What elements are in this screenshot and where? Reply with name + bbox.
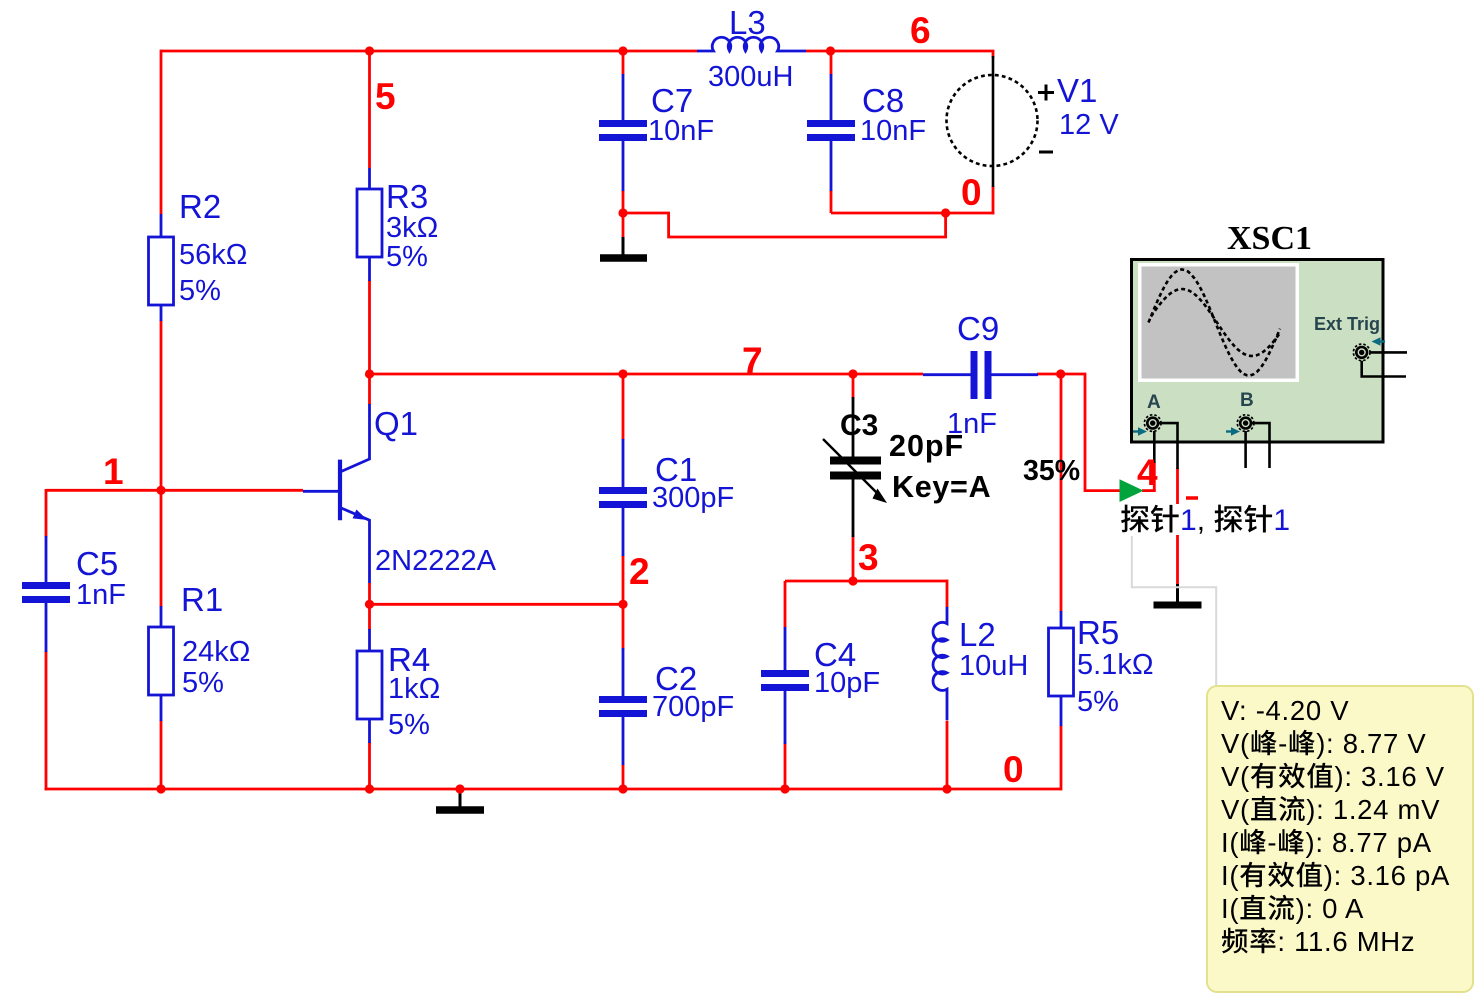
node 6 junction bbox=[826, 46, 835, 55]
readout line I rms bbox=[1221, 860, 1450, 891]
svg-text:R2: R2 bbox=[179, 188, 221, 225]
svg-text:I(: I( bbox=[1221, 860, 1239, 891]
ground on bottom rail bbox=[436, 789, 484, 810]
resistor R5 top lead bbox=[1060, 611, 1063, 628]
svg-text:0: 0 bbox=[1003, 749, 1024, 790]
capacitor C9 bbox=[923, 351, 1038, 399]
wire emitter row node 2 bbox=[370, 603, 624, 606]
resistor R4 bottom lead bbox=[368, 719, 371, 743]
wire R1 bottom to ground rail bbox=[160, 720, 163, 790]
capacitor C1 bbox=[599, 439, 647, 556]
wire scope A lead lower red segment bbox=[1153, 462, 1156, 492]
node 3 junction bbox=[848, 576, 857, 585]
svg-text:5%: 5% bbox=[182, 667, 224, 699]
node 5 junction bbox=[365, 46, 374, 55]
probe label 探针1,探针1 bbox=[1121, 504, 1290, 537]
wire R5 bottom to rail bbox=[1060, 725, 1063, 790]
svg-text:): 8.77 V: ): 8.77 V bbox=[1316, 728, 1426, 759]
scope terminal A bbox=[1144, 415, 1161, 432]
transistor Q1 2N2222A bbox=[303, 404, 370, 583]
scope waveform large bbox=[1149, 270, 1281, 376]
probe minus polarity mark bbox=[1186, 496, 1198, 500]
resistor R5 bbox=[1049, 628, 1074, 696]
capacitor C8 bbox=[807, 74, 855, 191]
wire V1 bottom corner stub bbox=[992, 186, 995, 214]
node 2 junction at emitter bbox=[365, 600, 374, 609]
scope pin A minus lead bbox=[1158, 423, 1178, 469]
svg-text:R5: R5 bbox=[1077, 614, 1119, 651]
svg-text:): 1.24 mV: ): 1.24 mV bbox=[1306, 794, 1440, 825]
node 2 junction at C1-C2 bbox=[618, 600, 627, 609]
wire probe arrow to scope A lead bbox=[1142, 489, 1156, 492]
svg-text:5%: 5% bbox=[386, 241, 428, 273]
voltage source V1 bbox=[947, 56, 1055, 187]
wire node 4 to probe arrow bbox=[1060, 374, 1126, 491]
svg-text:C5: C5 bbox=[76, 545, 118, 582]
svg-text:20pF: 20pF bbox=[889, 429, 964, 463]
capacitor C4 bbox=[761, 627, 809, 744]
svg-text:XSC1: XSC1 bbox=[1227, 220, 1312, 257]
oscilloscope XSC1 body bbox=[1132, 260, 1386, 443]
wire C5 top lead red bbox=[45, 489, 48, 537]
scope pin B plus lead bbox=[1244, 431, 1247, 468]
wire top bus from L3 to V1 corner bbox=[806, 50, 994, 53]
readout line I peak-peak bbox=[1221, 827, 1432, 858]
wire bottom 0 net to V1 bbox=[831, 212, 994, 215]
probe leader line to readout box bbox=[1132, 536, 1216, 687]
svg-text:5%: 5% bbox=[1077, 686, 1119, 718]
resistor R3 bottom lead bbox=[368, 257, 371, 281]
wire scope A minus to probe ground bbox=[1176, 468, 1179, 585]
resistor R2 bbox=[149, 237, 174, 305]
wire top bus from R2 corner to L3 bbox=[161, 50, 697, 53]
svg-text:56kΩ: 56kΩ bbox=[179, 239, 247, 271]
svg-text:-: - bbox=[1278, 728, 1288, 759]
variable capacitor C3 bbox=[823, 397, 887, 537]
svg-text:12 V: 12 V bbox=[1059, 109, 1119, 141]
svg-text:300uH: 300uH bbox=[708, 61, 793, 93]
wire C7 bottom red stub bbox=[622, 190, 625, 238]
wire R2 column upper bbox=[160, 50, 163, 214]
svg-text:10nF: 10nF bbox=[648, 115, 714, 147]
wire C4 bottom to rail bbox=[784, 743, 787, 789]
wire R3 bottom to node 7 bbox=[368, 280, 371, 405]
wire R5 top lead red bbox=[1060, 374, 1063, 612]
svg-text:R3: R3 bbox=[386, 178, 428, 215]
svg-text:1: 1 bbox=[1273, 504, 1290, 537]
svg-text:): 8.77 pA: ): 8.77 pA bbox=[1306, 827, 1432, 858]
wire C3 top red stub bbox=[852, 374, 855, 399]
capacitor C7 bbox=[599, 74, 647, 191]
wire node 3 horizontal bbox=[785, 580, 947, 583]
svg-text:10pF: 10pF bbox=[814, 667, 880, 699]
svg-text:1nF: 1nF bbox=[76, 579, 126, 611]
svg-text:3kΩ: 3kΩ bbox=[386, 212, 438, 244]
node C7 ground junction bbox=[618, 208, 627, 217]
svg-text:6: 6 bbox=[910, 10, 931, 51]
svg-text:5%: 5% bbox=[388, 709, 430, 741]
ground probe reference bbox=[1154, 584, 1202, 605]
readout line V rms bbox=[1221, 761, 1445, 792]
wire C1 top lead red bbox=[622, 374, 625, 440]
wire Q1 emitter to R4 bbox=[368, 583, 371, 630]
resistor R1 top lead bbox=[160, 606, 163, 627]
scope waveform small bbox=[1151, 289, 1279, 356]
scope pin A plus lead bbox=[1153, 431, 1156, 463]
svg-text:1: 1 bbox=[1180, 504, 1197, 537]
resistor R2 top lead bbox=[160, 214, 163, 237]
resistor R5 bottom lead bbox=[1060, 696, 1063, 726]
svg-text:2N2222A: 2N2222A bbox=[375, 545, 497, 577]
svg-text:0: 0 bbox=[961, 172, 982, 213]
readout line frequency bbox=[1222, 926, 1415, 957]
svg-text:A: A bbox=[1147, 392, 1161, 413]
node 1 junction bbox=[156, 486, 165, 495]
readout line V peak-peak bbox=[1221, 728, 1426, 759]
scope terminal polarity arrows bbox=[1133, 337, 1385, 435]
scope pin Ext Trig leads bbox=[1362, 352, 1407, 376]
node 0 junction top bbox=[941, 208, 950, 217]
svg-text:): 3.16 V: ): 3.16 V bbox=[1335, 761, 1445, 792]
probe 1 green arrow bbox=[1120, 479, 1144, 502]
inductor L3 bbox=[697, 37, 806, 51]
svg-text:I(: I( bbox=[1221, 827, 1239, 858]
svg-text:7: 7 bbox=[742, 340, 763, 381]
rail junction R4 bbox=[365, 784, 374, 793]
svg-text:-: - bbox=[1267, 827, 1277, 858]
svg-text:B: B bbox=[1240, 390, 1254, 411]
wire C5 bottom to rail bbox=[45, 651, 48, 790]
node 7 junction at R3 bbox=[365, 369, 374, 378]
probe readout box bbox=[1207, 686, 1473, 992]
wire bottom ground rail bbox=[45, 788, 1061, 791]
wire R4 bottom to rail bbox=[368, 742, 371, 789]
resistor R1 bbox=[149, 627, 174, 695]
wire node 7 bus bbox=[370, 373, 924, 376]
wire C8 bottom red stub bbox=[830, 190, 833, 213]
scope pin B minus lead bbox=[1251, 423, 1270, 468]
svg-text:V: -4.20 V: V: -4.20 V bbox=[1221, 695, 1349, 726]
svg-text:5%: 5% bbox=[179, 275, 221, 307]
svg-text:10uH: 10uH bbox=[959, 650, 1028, 682]
wire R2-to-R1 column through node 1 bbox=[160, 320, 163, 607]
svg-text:300pF: 300pF bbox=[652, 482, 734, 514]
svg-text:700pF: 700pF bbox=[652, 691, 734, 723]
svg-text:Key=A: Key=A bbox=[892, 470, 991, 504]
svg-text:L2: L2 bbox=[959, 616, 996, 653]
wire V1 top corner stub bbox=[992, 51, 995, 58]
svg-text:I(: I( bbox=[1221, 893, 1239, 924]
svg-text:L3: L3 bbox=[729, 4, 766, 41]
svg-text:C9: C9 bbox=[957, 310, 999, 347]
rail junction C4 bbox=[780, 784, 789, 793]
rail junction R1 bbox=[156, 784, 165, 793]
node 7 junction at C1 bbox=[618, 369, 627, 378]
probe label background bbox=[1119, 504, 1286, 535]
resistor R4 bbox=[357, 651, 382, 719]
readout line V dc bbox=[1221, 794, 1440, 825]
svg-text:Ext Trig: Ext Trig bbox=[1314, 314, 1380, 334]
svg-text:3: 3 bbox=[858, 537, 879, 578]
wire L2 top lead red bbox=[946, 580, 949, 608]
wire node 1 horizontal to Q1 base bbox=[46, 489, 303, 492]
svg-text:R1: R1 bbox=[181, 581, 223, 618]
wire node 5 column upper bbox=[368, 51, 371, 168]
inductor L2 bbox=[933, 607, 947, 720]
svg-text:1: 1 bbox=[103, 451, 124, 492]
scope terminal Ext Trig bbox=[1353, 344, 1370, 361]
wire C3 bottom red to node 3 bbox=[852, 535, 855, 581]
svg-text:V1: V1 bbox=[1057, 72, 1097, 109]
wire C1-C2 column through node 2 bbox=[622, 555, 625, 649]
readout line V bbox=[1221, 695, 1349, 726]
rail junction ground bbox=[455, 784, 464, 793]
svg-text:5: 5 bbox=[375, 76, 396, 117]
node C7 top junction bbox=[618, 46, 627, 55]
node 7 junction at C3 bbox=[848, 369, 857, 378]
svg-text:: 11.6 MHz: : 11.6 MHz bbox=[1277, 926, 1415, 957]
wire C8 top red stub bbox=[830, 51, 833, 75]
resistor R2 bottom lead bbox=[160, 305, 163, 321]
svg-text:4: 4 bbox=[1137, 452, 1158, 493]
svg-text:C8: C8 bbox=[862, 82, 904, 119]
resistor R3 top lead bbox=[368, 168, 371, 189]
resistor R1 bottom lead bbox=[160, 695, 163, 721]
resistor R3 bbox=[357, 189, 382, 257]
readout line I dc bbox=[1221, 893, 1364, 924]
wire C2 bottom to rail bbox=[622, 764, 625, 789]
svg-text:V(: V( bbox=[1221, 761, 1250, 792]
wire C9 right to node 4 dot bbox=[1037, 373, 1061, 376]
svg-text:,: , bbox=[1197, 504, 1205, 537]
ground under C7 bbox=[600, 237, 647, 258]
svg-text:C3: C3 bbox=[840, 409, 878, 442]
svg-text:2: 2 bbox=[629, 551, 650, 592]
resistor R4 top lead bbox=[368, 629, 371, 651]
svg-text:1kΩ: 1kΩ bbox=[388, 673, 440, 705]
svg-text:): 3.16 pA: ): 3.16 pA bbox=[1324, 860, 1450, 891]
wire C7 top red stub bbox=[622, 51, 625, 75]
node 4 junction at C9 bbox=[1056, 369, 1065, 378]
svg-text:10nF: 10nF bbox=[860, 115, 926, 147]
svg-text:V(: V( bbox=[1221, 728, 1250, 759]
svg-text:): 0 A: ): 0 A bbox=[1296, 893, 1364, 924]
svg-text:C7: C7 bbox=[651, 82, 693, 119]
capacitor C5 bbox=[22, 536, 70, 652]
svg-text:Q1: Q1 bbox=[374, 405, 418, 442]
wire C4 top lead red bbox=[784, 581, 787, 628]
capacitor C2 bbox=[599, 648, 647, 765]
svg-text:5.1kΩ: 5.1kΩ bbox=[1077, 649, 1154, 681]
svg-text:24kΩ: 24kΩ bbox=[182, 636, 250, 668]
svg-text:35%: 35% bbox=[1023, 455, 1080, 487]
svg-text:V(: V( bbox=[1221, 794, 1250, 825]
wire L2 bottom to rail bbox=[946, 721, 949, 789]
rail junction C2 bbox=[618, 784, 627, 793]
rail junction L2 bbox=[942, 784, 951, 793]
wire jog from C7 ground to 0 node bbox=[623, 212, 946, 237]
scope terminal B bbox=[1237, 415, 1254, 432]
